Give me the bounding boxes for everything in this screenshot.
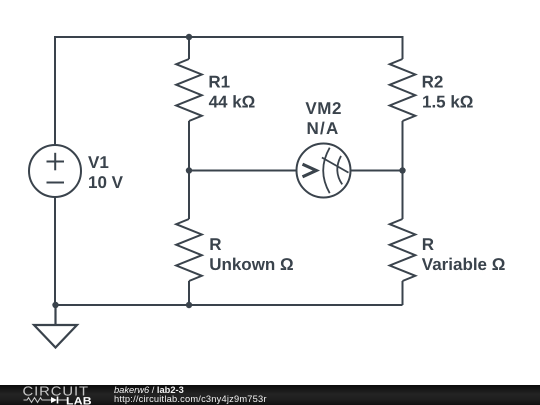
svg-text:44 kΩ: 44 kΩ bbox=[209, 93, 256, 112]
svg-text:Variable Ω: Variable Ω bbox=[422, 255, 506, 274]
wire R unknown bottom lead bbox=[188, 281, 190, 305]
wire R2 top lead bbox=[402, 36, 404, 59]
wire middle right (VM2 to right branch) bbox=[351, 170, 403, 172]
resistor R unknown bbox=[176, 219, 202, 281]
svg-text:10 V: 10 V bbox=[88, 173, 124, 192]
resistor R1 bbox=[176, 59, 202, 121]
svg-text:VM2: VM2 bbox=[305, 99, 342, 118]
node top R1 bbox=[186, 34, 192, 40]
node ground bbox=[52, 302, 58, 308]
svg-text:R: R bbox=[422, 235, 434, 254]
footer bar bbox=[0, 385, 540, 405]
wire top horizontal bbox=[55, 36, 403, 38]
svg-text:R: R bbox=[209, 235, 221, 254]
node bottom R bbox=[186, 302, 192, 308]
svg-text:1.5 kΩ: 1.5 kΩ bbox=[422, 93, 473, 112]
wire R unknown top lead bbox=[188, 171, 190, 220]
svg-text:Unkown Ω: Unkown Ω bbox=[209, 255, 293, 274]
wire bottom horizontal bbox=[55, 304, 403, 306]
ground bbox=[34, 305, 77, 348]
svg-text:R2: R2 bbox=[422, 73, 444, 92]
wire left vertical bottom (V1 bottom lead) bbox=[54, 197, 56, 305]
svg-text:N/A: N/A bbox=[307, 119, 340, 138]
wire R1 bottom lead bbox=[188, 121, 190, 171]
wire left vertical top (V1 top lead) bbox=[54, 36, 56, 145]
footer url bbox=[114, 395, 267, 404]
svg-text:LAB: LAB bbox=[66, 395, 92, 405]
wire R2 bottom lead bbox=[402, 121, 404, 171]
footer title bbox=[114, 386, 184, 395]
resistor R variable bbox=[390, 219, 416, 281]
wire R variable bottom lead bbox=[402, 281, 404, 305]
voltmeter VM2 bbox=[297, 144, 351, 198]
resistor R2 bbox=[390, 59, 416, 121]
voltage source V1 bbox=[29, 145, 81, 197]
node mid R1 bbox=[186, 167, 192, 173]
svg-text:V1: V1 bbox=[88, 153, 109, 172]
wire R1 top lead bbox=[188, 37, 190, 59]
wire middle left (to VM2) bbox=[189, 170, 297, 172]
svg-text:R1: R1 bbox=[208, 73, 230, 92]
CircuitLab logo bbox=[0, 385, 100, 405]
wire R variable top lead bbox=[402, 171, 404, 220]
node mid R2 bbox=[399, 167, 405, 173]
